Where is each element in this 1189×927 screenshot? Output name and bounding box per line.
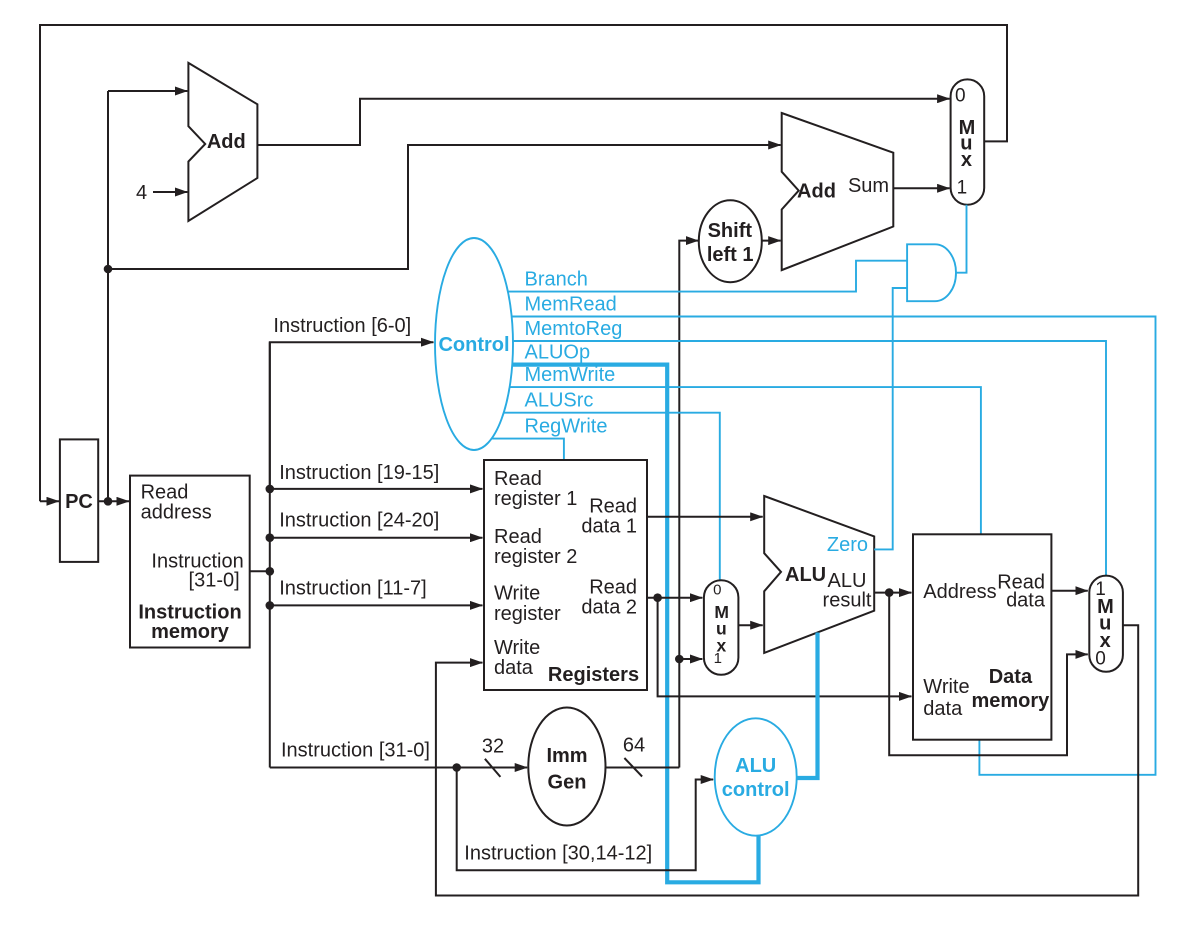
wire ALU result to mux M3 input 0 — [889, 593, 1088, 756]
slash 64-bit width mark — [624, 758, 642, 777]
svg-text:[31-0]: [31-0] — [189, 570, 240, 592]
wire immediate to Shift left 1 — [679, 241, 698, 768]
wire Read data 1 to ALU — [647, 516, 763, 518]
svg-text:Data: Data — [989, 666, 1033, 688]
svg-text:Registers: Registers — [548, 664, 639, 686]
wire Instruction [30,14-12] to ALU control — [457, 768, 714, 871]
svg-text:control: control — [722, 779, 790, 801]
memory Instruction memory — [130, 476, 250, 648]
wire PC output to Instruction memory — [98, 500, 129, 502]
svg-text:Instruction [30,14-12]: Instruction [30,14-12] — [464, 842, 652, 864]
svg-text:1: 1 — [714, 650, 722, 667]
svg-text:ALUOp: ALUOp — [525, 342, 591, 364]
wire immediate to mux M2 input 1 — [679, 658, 702, 660]
wire AND output to mux M1 select — [956, 205, 967, 273]
svg-text:Read: Read — [589, 496, 637, 518]
svg-text:result: result — [823, 589, 872, 611]
svg-text:Sum: Sum — [848, 175, 889, 197]
svg-text:data 1: data 1 — [581, 516, 637, 538]
wire PC to Add1 top input — [108, 90, 187, 92]
svg-text:data: data — [494, 657, 534, 679]
svg-text:Read: Read — [494, 468, 542, 490]
svg-text:0: 0 — [955, 85, 966, 106]
wire into PC input — [40, 500, 59, 502]
wire MemWrite control signal — [510, 387, 981, 534]
node Read data 2 junction — [653, 593, 662, 602]
node instruction bus junction memory output — [266, 567, 275, 576]
svg-text:Instruction [6-0]: Instruction [6-0] — [273, 315, 411, 337]
svg-text:Address: Address — [923, 581, 996, 603]
svg-text:Read: Read — [589, 576, 637, 598]
svg-text:register 1: register 1 — [494, 488, 577, 510]
wire MemRead control signal — [512, 317, 1156, 775]
node instruction bus junction 11-7 — [266, 601, 275, 610]
svg-text:Instruction [19-15]: Instruction [19-15] — [279, 462, 439, 484]
wire Add2 Sum output to mux M1 input 1 — [893, 187, 949, 189]
svg-text:32: 32 — [482, 736, 504, 758]
svg-text:Instruction [24-20]: Instruction [24-20] — [279, 510, 439, 532]
node instruction bus junction 24-20 — [266, 533, 275, 542]
node immediate input junction — [452, 763, 461, 772]
svg-text:MemRead: MemRead — [525, 294, 617, 316]
wire ALUSrc control signal — [504, 413, 720, 581]
control ellipse — [435, 238, 513, 450]
svg-text:Write: Write — [494, 637, 540, 659]
node instruction bus junction 19-15 — [266, 485, 275, 494]
alu ALU — [764, 496, 874, 653]
svg-text:data: data — [923, 698, 963, 720]
mux M2 (ALUSrc) — [704, 580, 739, 675]
gate AND (branch and zero) — [907, 244, 956, 301]
svg-text:memory: memory — [971, 690, 1050, 712]
svg-text:Zero: Zero — [827, 534, 868, 556]
wire write-back mux M3 output to Registers Write data — [436, 625, 1138, 895]
svg-text:0: 0 — [1095, 648, 1106, 669]
svg-text:Add: Add — [797, 181, 836, 203]
wire PC to Add2 (branch target base) — [108, 145, 781, 269]
svg-text:ALUSrc: ALUSrc — [525, 390, 594, 412]
wire instruction bus vertical — [269, 342, 271, 767]
svg-text:data 2: data 2 — [581, 596, 637, 618]
register PC — [60, 439, 98, 562]
svg-text:Write: Write — [923, 676, 969, 698]
svg-text:RegWrite: RegWrite — [525, 416, 608, 438]
svg-text:MemWrite: MemWrite — [525, 364, 616, 386]
svg-text:address: address — [141, 502, 212, 524]
svg-text:Read: Read — [494, 526, 542, 548]
svg-text:Branch: Branch — [525, 269, 588, 291]
svg-text:1: 1 — [957, 177, 968, 198]
wire MemtoReg control signal — [513, 341, 1106, 576]
wire ALU control to ALU (thick) — [797, 633, 818, 779]
wire Instruction [31-0] to Imm Gen — [270, 767, 527, 769]
memory Data memory — [913, 534, 1051, 739]
node immediate to mux junction — [675, 655, 684, 664]
wire PC feedback vertical — [107, 91, 109, 501]
wire Add1 output to mux M1 input 0 — [257, 99, 949, 145]
svg-text:MemtoReg: MemtoReg — [525, 318, 623, 340]
wire Shift left 1 to Add2 lower input — [762, 240, 781, 242]
wire Instruction [11-7] to Write register — [270, 604, 483, 606]
svg-text:Instruction [11-7]: Instruction [11-7] — [279, 577, 426, 599]
svg-text:ALU: ALU — [785, 564, 826, 586]
svg-text:data: data — [1006, 590, 1046, 612]
wire Read data 2 to mux M2 input 0 — [647, 597, 702, 599]
node PC branch junction — [104, 265, 113, 274]
register file Registers — [484, 460, 647, 690]
mux M1 (PC source) — [951, 79, 985, 204]
node PC output junction — [104, 497, 113, 506]
svg-text:64: 64 — [623, 735, 645, 757]
slash 32-bit width mark — [485, 759, 501, 777]
wire ALU result to Data memory Address — [874, 592, 911, 594]
svg-text:Control: Control — [438, 334, 509, 356]
adder Add2 (branch target) — [782, 113, 894, 270]
wire mux M2 output to ALU — [738, 624, 762, 626]
wire constant 4 into Add1 — [153, 191, 187, 193]
wire Instruction [24-20] to Read register 2 — [270, 537, 483, 539]
svg-text:PC: PC — [65, 491, 93, 513]
mux M3 (MemtoReg) — [1089, 576, 1123, 672]
svg-text:left 1: left 1 — [707, 244, 754, 266]
svg-text:register 2: register 2 — [494, 546, 577, 568]
svg-text:Instruction [31-0]: Instruction [31-0] — [281, 740, 430, 762]
node ALU result junction — [885, 588, 894, 597]
svg-text:ALU: ALU — [735, 755, 776, 777]
ellipse Shift left 1 — [699, 200, 762, 282]
adder Add1 (PC+4) — [188, 63, 257, 221]
svg-text:memory: memory — [151, 621, 230, 643]
wire Data memory Read data to mux M3 input 1 — [1051, 590, 1087, 592]
ellipse Imm Gen — [528, 708, 605, 826]
wire ALUOp control bus (thick) — [512, 365, 758, 883]
svg-text:Shift: Shift — [708, 220, 753, 242]
svg-text:Read: Read — [141, 482, 189, 504]
svg-text:Gen: Gen — [548, 772, 587, 794]
wire RegWrite control signal — [492, 439, 564, 460]
wire Zero flag to AND gate — [874, 288, 907, 549]
svg-text:Write: Write — [494, 583, 540, 605]
svg-text:Imm: Imm — [546, 745, 587, 767]
wire Instruction [19-15] to Read register 1 — [270, 488, 483, 490]
wire Imm Gen output — [605, 767, 679, 769]
wire instruction opcode to Control — [270, 342, 434, 489]
wire Instruction memory output to instruction bus — [250, 570, 270, 572]
svg-text:0: 0 — [713, 582, 721, 599]
wire Branch control signal — [508, 261, 907, 292]
wire Read data 2 to Data memory Write data — [658, 598, 912, 697]
svg-text:register: register — [494, 603, 561, 625]
svg-text:x: x — [961, 149, 972, 171]
ellipse ALU control — [715, 718, 797, 835]
svg-text:4: 4 — [136, 182, 147, 204]
wire mux M1 output to PC (top loop) — [40, 25, 1007, 501]
svg-text:Add: Add — [207, 131, 246, 153]
